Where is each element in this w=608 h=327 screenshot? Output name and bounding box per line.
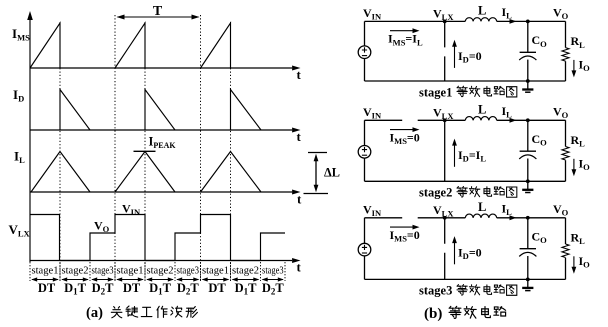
stage2 capacitor C_O (527, 120, 529, 151)
stage1 diode branch (444, 21, 446, 81)
svg-text:ID=0: ID=0 (458, 49, 482, 65)
svg-text:ID=0: ID=0 (458, 245, 482, 261)
I_D waveform (60, 90, 261, 131)
I_D axis (30, 129, 292, 131)
V_LX waveform (30, 215, 285, 261)
svg-text:DT: DT (208, 281, 226, 295)
stage1 bottom wire (365, 80, 566, 82)
stage2 diode branch (444, 120, 446, 181)
stage2 resistor R_L zigzag (562, 147, 569, 160)
stage1 top wire V_IN to V_LX (365, 20, 466, 22)
svg-text:(b): (b) (424, 306, 442, 322)
svg-text:t: t (297, 67, 302, 82)
stage1 output node dot (526, 20, 530, 24)
I_L waveform (31, 152, 261, 193)
stage1 capacitor C_O (527, 21, 529, 52)
stage2 wire inductor to V_O corner (497, 119, 566, 121)
stage row separators (30, 262, 285, 281)
svg-text:ΔL: ΔL (324, 166, 340, 180)
stage2 left branch wire (364, 120, 366, 181)
stage1 I_MS arrow (390, 30, 414, 32)
stage2 top wire V_IN to V_LX (365, 119, 466, 121)
stage2 right branch wire (565, 120, 567, 181)
stage1 ground node dot (526, 79, 530, 83)
stage1 resistor R_L zigzag (562, 48, 569, 61)
stage1 I_O arrow (573, 60, 575, 73)
stage3 output node dot (526, 216, 530, 220)
stage2 I_L wire arrow (510, 118, 517, 123)
stage1 ground (527, 81, 529, 89)
stage2 I_O arrow (573, 159, 575, 172)
period marker T (117, 15, 200, 20)
stage2 ground node dot (526, 179, 530, 183)
stage3 left branch wire (364, 218, 366, 280)
I_L axis (30, 191, 292, 193)
stage3 ground node dot (526, 278, 530, 282)
svg-text:L: L (478, 200, 486, 214)
I_PEAK bar (134, 150, 156, 152)
stage3 top wire V_IN to V_LX (365, 217, 466, 219)
stage3 wire inductor to V_O corner (497, 217, 566, 219)
svg-text:t: t (297, 129, 302, 144)
stage3 I_D arrow (454, 241, 456, 264)
svg-text:stage1: stage1 (32, 265, 59, 277)
stage2 V_LX node dot (443, 118, 447, 122)
stage3 I_L wire arrow (510, 215, 517, 220)
vertical amplitude axis (29, 19, 31, 262)
svg-text:stage2: stage2 (232, 265, 259, 277)
stage3 I_MS arrow (390, 226, 414, 228)
stage2 ground (527, 181, 529, 189)
svg-text:stage2: stage2 (62, 265, 89, 277)
dotted grid lines (59, 22, 61, 281)
voltage source V_IN circle stage1 (358, 46, 371, 59)
svg-text:stage1: stage1 (419, 85, 452, 99)
I_MS axis (30, 23, 301, 263)
svg-text:stage3: stage3 (419, 284, 452, 298)
stage3 inductor L coil (465, 214, 496, 218)
svg-text:stage3: stage3 (177, 265, 200, 277)
voltage source V_IN circle stage3 (358, 243, 371, 256)
voltage source V_IN circle stage2 (358, 146, 371, 159)
stage3 capacitor C_O (527, 218, 529, 249)
stage1 right branch wire (565, 21, 567, 81)
stage2 I_MS arrow (390, 129, 414, 131)
stage3 diode branch (444, 218, 446, 280)
stage3 I_O arrow (573, 256, 575, 269)
stage2 I_D arrow (454, 143, 456, 167)
svg-text:stage3: stage3 (262, 265, 284, 277)
svg-text:stage2: stage2 (147, 265, 174, 277)
stage3 bottom wire (365, 278, 566, 280)
svg-text:stage2: stage2 (419, 186, 452, 200)
stage duration arrows (31, 277, 284, 281)
stage3 ground (527, 279, 529, 287)
stage1 inductor L coil (465, 18, 496, 22)
stage3 right branch wire (565, 218, 567, 280)
stage1 V_LX node dot (443, 20, 447, 24)
I_MS waveform (30, 23, 231, 68)
svg-text:T: T (153, 4, 163, 19)
stage3 V_LX node dot (443, 216, 447, 220)
delta-L ripple marker (304, 153, 329, 194)
svg-text:DT: DT (38, 281, 56, 295)
stage1 I_D arrow (454, 44, 456, 68)
svg-text:stage3: stage3 (92, 265, 114, 277)
stage1 wire inductor to V_O corner (497, 20, 566, 22)
svg-text:L: L (478, 3, 486, 17)
stage3 resistor R_L zigzag (562, 244, 569, 257)
svg-text:stage1: stage1 (117, 265, 144, 277)
svg-text:t: t (297, 260, 302, 275)
stage2 inductor L coil (465, 117, 496, 121)
svg-text:L: L (478, 102, 486, 116)
stage2 output node dot (526, 118, 530, 122)
svg-text:stage1: stage1 (202, 265, 229, 277)
svg-text:t: t (297, 192, 302, 207)
stage2 bottom wire (365, 180, 566, 182)
V_LX axis (30, 260, 292, 262)
svg-text:(a): (a) (86, 305, 103, 321)
stage1 I_L wire arrow (510, 19, 517, 24)
svg-text:DT: DT (123, 281, 141, 295)
stage1 left branch wire (364, 21, 366, 81)
